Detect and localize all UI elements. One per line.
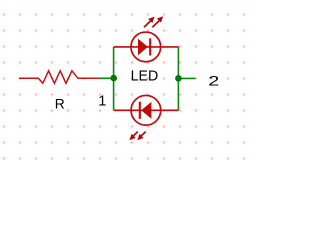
wire: right vertical bus (177, 47, 179, 110)
wire: stub to pin 2 (178, 77, 195, 79)
wire: left vertical bus (113, 47, 115, 110)
node 1 junction (110, 75, 117, 82)
LED D1 (top, anode left) (114, 32, 179, 62)
svg-text:2: 2 (208, 74, 219, 90)
resistor R (zigzag with pin leads) (19, 71, 99, 84)
svg-text:LED: LED (131, 68, 159, 84)
LED D1 light arrows (144, 16, 163, 27)
node 2 junction (175, 75, 182, 82)
wire: resistor to node 1 (99, 77, 114, 79)
LED D2 light arrows (129, 132, 145, 141)
svg-text:R: R (55, 97, 65, 112)
svg-text:1: 1 (98, 94, 106, 110)
LED D2 (bottom, anode right) (114, 95, 179, 125)
